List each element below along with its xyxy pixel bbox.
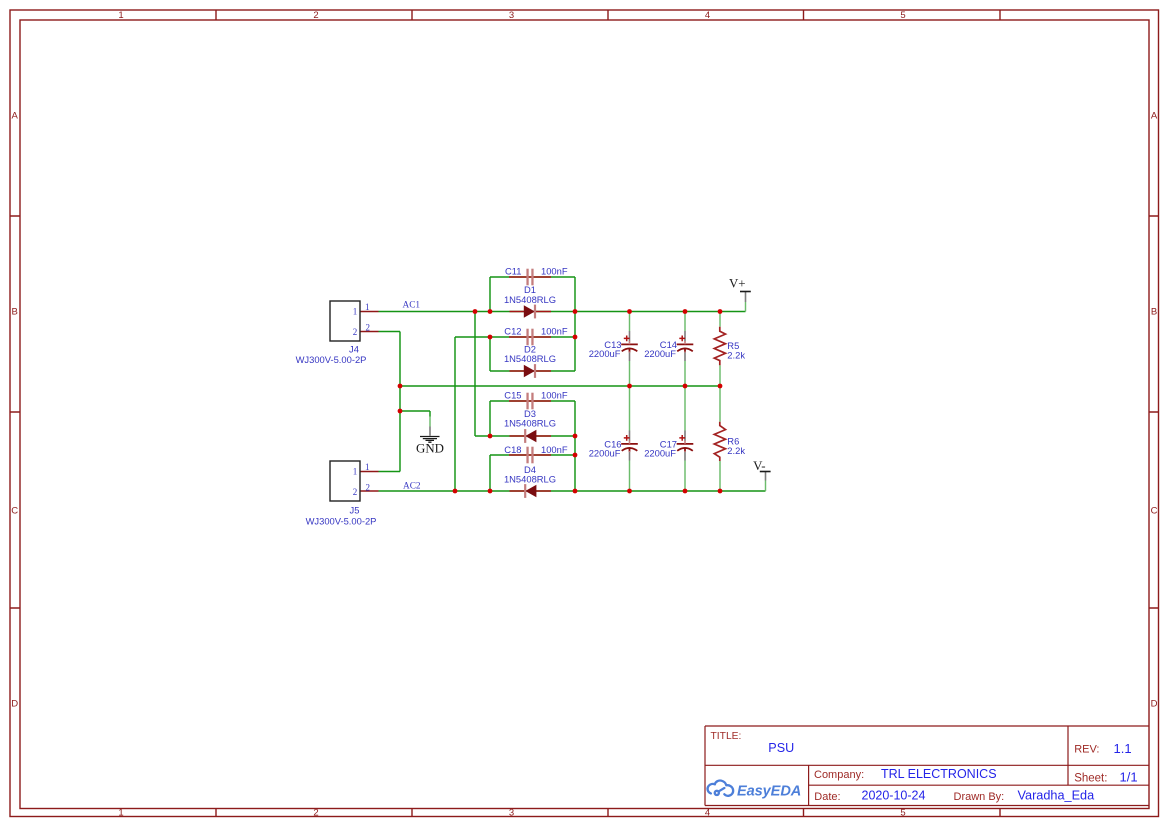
svg-text:100nF: 100nF: [541, 444, 568, 455]
svg-text:100nF: 100nF: [541, 325, 568, 336]
svg-text:1N5408RLG: 1N5408RLG: [504, 353, 556, 364]
svg-text:1/1: 1/1: [1120, 770, 1138, 785]
svg-text:D: D: [1151, 698, 1158, 709]
svg-text:C11: C11: [505, 266, 522, 277]
svg-text:Drawn By:: Drawn By:: [954, 791, 1005, 803]
svg-text:5: 5: [900, 808, 905, 819]
svg-text:C: C: [11, 505, 18, 516]
svg-text:C15: C15: [504, 390, 521, 401]
svg-text:1: 1: [365, 302, 370, 312]
svg-text:PSU: PSU: [768, 741, 794, 755]
svg-text:REV:: REV:: [1074, 744, 1099, 756]
svg-text:V+: V+: [729, 277, 746, 291]
svg-text:2200uF: 2200uF: [644, 448, 676, 459]
svg-text:4: 4: [705, 808, 710, 819]
svg-text:C18: C18: [504, 444, 521, 455]
svg-text:5: 5: [900, 10, 905, 21]
svg-text:TITLE:: TITLE:: [711, 731, 742, 742]
svg-text:C12: C12: [504, 325, 521, 336]
svg-text:2200uF: 2200uF: [644, 348, 676, 359]
svg-text:1N5408RLG: 1N5408RLG: [504, 418, 556, 429]
svg-text:Date:: Date:: [814, 791, 840, 803]
svg-text:J4: J4: [349, 343, 359, 354]
svg-text:Company:: Company:: [814, 769, 864, 781]
svg-text:1: 1: [118, 808, 123, 819]
svg-text:Varadha_Eda: Varadha_Eda: [1018, 789, 1096, 803]
svg-text:2: 2: [313, 808, 318, 819]
svg-text:B: B: [12, 306, 18, 317]
svg-text:2: 2: [313, 10, 318, 21]
svg-text:EasyEDA: EasyEDA: [737, 783, 801, 799]
svg-text:1: 1: [353, 307, 358, 317]
svg-text:A: A: [12, 110, 19, 121]
svg-text:TRL ELECTRONICS: TRL ELECTRONICS: [881, 767, 997, 781]
svg-text:B: B: [1151, 306, 1157, 317]
svg-text:2: 2: [365, 482, 370, 492]
svg-text:2: 2: [365, 322, 370, 332]
svg-text:1N5408RLG: 1N5408RLG: [504, 473, 556, 484]
svg-text:2: 2: [353, 487, 358, 497]
svg-text:Sheet:: Sheet:: [1074, 772, 1107, 784]
svg-text:4: 4: [705, 10, 710, 21]
svg-text:WJ300V-5.00-2P: WJ300V-5.00-2P: [296, 354, 367, 365]
svg-text:2020-10-24: 2020-10-24: [862, 789, 926, 803]
svg-text:AC2: AC2: [403, 481, 421, 491]
svg-text:100nF: 100nF: [541, 390, 568, 401]
svg-text:WJ300V-5.00-2P: WJ300V-5.00-2P: [306, 515, 377, 526]
svg-text:D: D: [11, 698, 18, 709]
svg-text:C: C: [1151, 505, 1158, 516]
svg-text:GND: GND: [416, 442, 444, 456]
svg-text:1: 1: [118, 10, 123, 21]
svg-text:2.2k: 2.2k: [727, 445, 745, 456]
svg-text:A: A: [1151, 110, 1158, 121]
svg-text:1: 1: [365, 462, 370, 472]
svg-text:1.1: 1.1: [1114, 741, 1132, 756]
svg-text:J5: J5: [350, 504, 360, 515]
svg-text:1N5408RLG: 1N5408RLG: [504, 294, 556, 305]
svg-text:1: 1: [353, 467, 358, 477]
svg-text:2.2k: 2.2k: [727, 349, 745, 360]
svg-text:100nF: 100nF: [541, 266, 568, 277]
svg-text:3: 3: [509, 10, 514, 21]
svg-text:2: 2: [353, 327, 358, 337]
svg-text:AC1: AC1: [403, 301, 421, 311]
svg-text:2200uF: 2200uF: [589, 348, 621, 359]
svg-text:V-: V-: [753, 459, 765, 473]
svg-text:2200uF: 2200uF: [589, 448, 621, 459]
svg-text:3: 3: [509, 808, 514, 819]
